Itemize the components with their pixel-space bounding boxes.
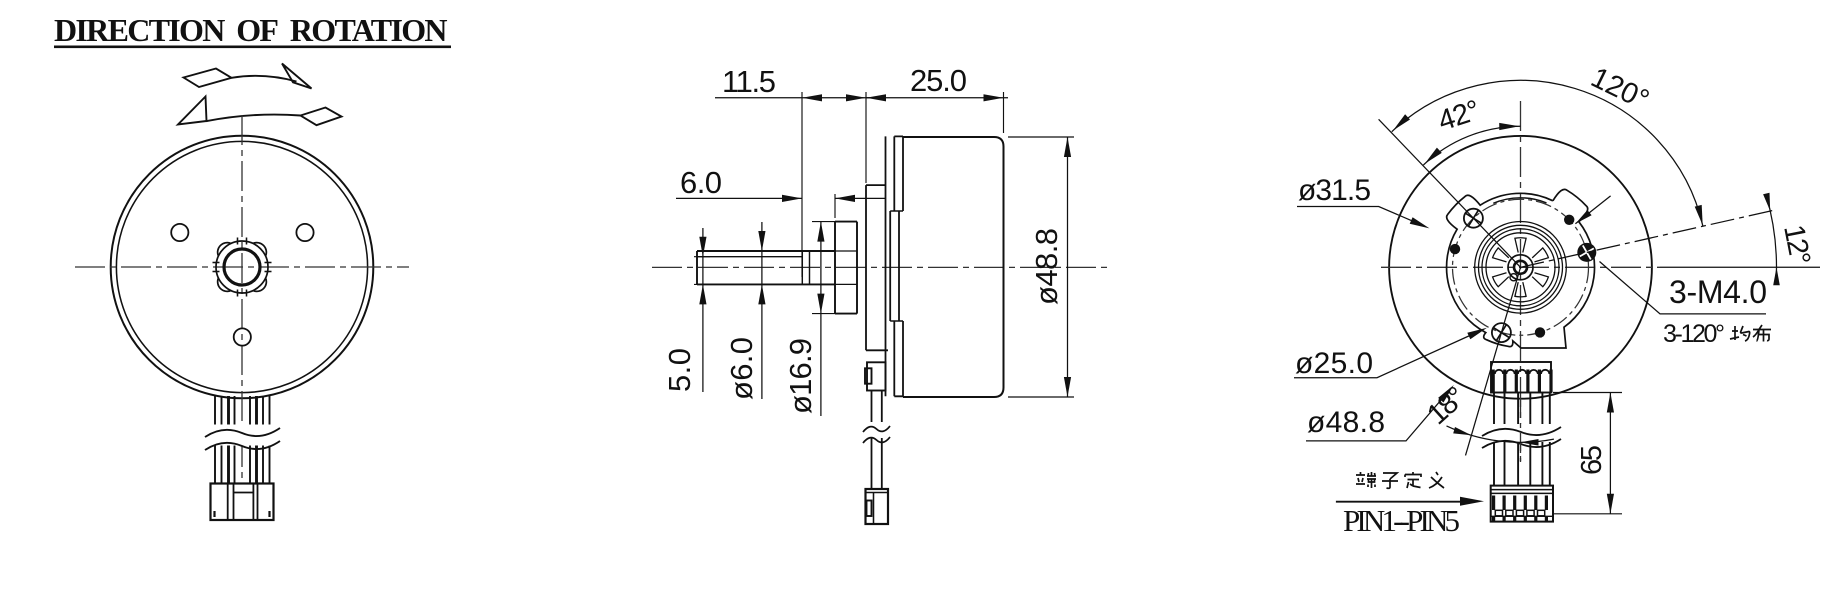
- dimension 65: [1553, 393, 1622, 514]
- title DIRECTION OF ROTATION: [54, 12, 451, 48]
- screw holes (positioning): [1464, 209, 1483, 228]
- centerline over break: [1520, 400, 1522, 462]
- radial line through screw1 (42/120 deg reference): [1379, 119, 1521, 267]
- wires rear view: [1493, 393, 1495, 486]
- shaft groove: [802, 251, 809, 284]
- connector front view: [211, 484, 274, 521]
- svg-text:ø31.5: ø31.5: [1298, 174, 1371, 207]
- rear view centerlines: [1381, 266, 1660, 268]
- radial line through screw2 (dash-dot): [1521, 211, 1773, 268]
- svg-text:PIN1--PIN5: PIN1--PIN5: [1343, 503, 1460, 538]
- rear view outer circle: [1389, 136, 1652, 399]
- arrow to connector: [1336, 501, 1467, 503]
- 18 deg arc: [1447, 426, 1554, 442]
- 42 deg arc: [1423, 126, 1520, 165]
- svg-text:65: 65: [1576, 445, 1608, 475]
- svg-text:6.0: 6.0: [680, 165, 722, 200]
- svg-text:ø6.0: ø6.0: [724, 337, 759, 400]
- hub side view: [835, 222, 857, 314]
- svg-text:3-M4.0: 3-M4.0: [1669, 274, 1767, 310]
- svg-text:5.0: 5.0: [662, 348, 697, 392]
- witness stub to M4 hole (top-right): [1575, 196, 1610, 224]
- top connector block rear view: [1491, 362, 1551, 393]
- svg-text:DIRECTION OF ROTATION: DIRECTION OF ROTATION: [54, 12, 448, 48]
- wire exit box side view: [867, 362, 886, 390]
- mounting hole left: [171, 224, 188, 241]
- extension line shaft groove: [801, 92, 803, 277]
- terminal definition callout: [1356, 472, 1376, 488]
- svg-text:3-120°: 3-120°: [1663, 320, 1725, 348]
- motor body side view: [903, 137, 1004, 397]
- mounting plate with ears: [1447, 189, 1595, 348]
- 120 deg arc: [1392, 80, 1703, 226]
- radial line through screw3: [1466, 267, 1521, 455]
- cable break side view: [863, 422, 891, 438]
- flange plate side view: [866, 185, 888, 350]
- wires side view: [872, 391, 882, 490]
- center shaft circles: [1508, 255, 1533, 280]
- svg-text:ø16.9: ø16.9: [783, 338, 818, 414]
- rotation arrow bottom (counter-clockwise): [178, 97, 342, 126]
- wire bundle front view: [214, 396, 216, 483]
- cable break rear view: [1481, 424, 1561, 442]
- shaft flat line: [697, 256, 802, 258]
- 12 deg arc: [1766, 195, 1776, 283]
- motor can front lip side view: [894, 136, 903, 396]
- motor outer circle (front view): [111, 136, 374, 399]
- cable break symbol front view: [204, 425, 281, 446]
- svg-text:12°: 12°: [1777, 222, 1816, 267]
- CJK: jun bu (evenly distributed): [1730, 326, 1750, 341]
- svg-text:ø48.8: ø48.8: [1307, 406, 1385, 439]
- M4 tapped holes (3x): [1564, 215, 1574, 225]
- rotor slots: [1515, 282, 1526, 297]
- svg-text:11.5: 11.5: [722, 64, 776, 99]
- svg-text:ø48.8: ø48.8: [1029, 228, 1064, 305]
- bolt circle (dash-dot): [1453, 199, 1589, 335]
- bottom connector rear view: [1491, 486, 1553, 522]
- svg-text:25.0: 25.0: [910, 63, 967, 98]
- svg-text:42°: 42°: [1434, 94, 1484, 137]
- plate inner rim arc: [1493, 198, 1546, 203]
- side view centerline: [652, 266, 1108, 268]
- mounting hole bottom: [234, 328, 251, 345]
- center hub rings: [1475, 221, 1567, 313]
- shaft lines through hub gap: [835, 251, 857, 284]
- rotation arrow top (clockwise): [184, 64, 312, 89]
- svg-text:ø25.0: ø25.0: [1295, 347, 1373, 380]
- shaft side view: [697, 250, 835, 252]
- svg-text:18°: 18°: [1421, 381, 1472, 432]
- centerlines front view: [75, 266, 409, 268]
- mounting hole right: [296, 224, 313, 241]
- front boss recess: [890, 211, 899, 321]
- shaft hub front view: [224, 249, 260, 285]
- connector side view: [866, 489, 889, 524]
